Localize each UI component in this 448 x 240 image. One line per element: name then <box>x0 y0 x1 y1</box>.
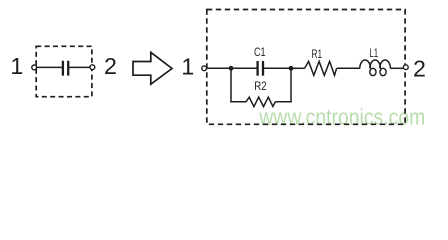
capacitor (left circuit) <box>63 61 68 76</box>
terminal node 1 (right circuit) <box>202 66 207 71</box>
wire: node A down to R2 branch <box>230 68 232 102</box>
terminal label 1 (left circuit) <box>10 53 23 79</box>
terminal label 2 (right circuit) <box>413 56 426 82</box>
svg-text:R2: R2 <box>254 79 266 93</box>
wire: node B to R1 <box>291 67 305 69</box>
wire: R2 branch bottom right <box>275 101 291 103</box>
dashed box (left circuit) <box>36 46 92 96</box>
block arrow <box>133 52 172 84</box>
terminal label 1 (right circuit) <box>181 54 194 80</box>
resistor R1 <box>305 61 337 75</box>
svg-text:1: 1 <box>10 53 23 79</box>
wire: left terminal to capacitor <box>37 66 62 68</box>
label C1 <box>254 45 266 59</box>
label R2 <box>254 79 266 93</box>
svg-text:C1: C1 <box>254 45 266 59</box>
svg-text:www.cntronics.com: www.cntronics.com <box>258 105 425 130</box>
wire: R1 to L1 <box>337 67 360 69</box>
svg-text:L1: L1 <box>369 46 378 60</box>
terminal node 2 (left circuit) <box>90 65 95 70</box>
wire: node B down to R2 branch <box>290 68 292 102</box>
svg-text:2: 2 <box>104 53 117 79</box>
wire: L1 to terminal 2 <box>390 67 403 69</box>
junction node B (right of C1/R2) <box>289 66 294 71</box>
capacitor C1 <box>258 61 263 76</box>
resistor R2 <box>246 97 275 106</box>
svg-text:1: 1 <box>181 54 194 80</box>
wire: terminal 1 to node A <box>207 67 231 69</box>
svg-text:2: 2 <box>413 56 426 82</box>
label R1 <box>312 47 323 61</box>
wire: C1 right plate to node B <box>264 67 291 69</box>
junction node A (left of C1/R2) <box>229 66 234 71</box>
terminal node 2 (right circuit) <box>403 65 408 70</box>
watermark www.cntronics.com <box>258 105 425 130</box>
label L1 <box>369 46 378 60</box>
wire: capacitor to right terminal <box>69 66 90 68</box>
terminal node 1 (left circuit) <box>32 65 37 70</box>
dashed box (right circuit) <box>207 10 405 125</box>
terminal label 2 (left circuit) <box>104 53 117 79</box>
inductor L1 <box>360 60 391 76</box>
wire: node A to C1 left plate <box>231 67 257 69</box>
wire: R2 branch bottom left <box>230 101 246 103</box>
svg-text:R1: R1 <box>312 47 323 61</box>
